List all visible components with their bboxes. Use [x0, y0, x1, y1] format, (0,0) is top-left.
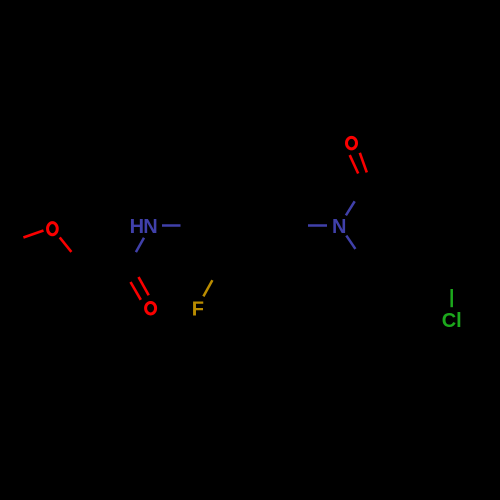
wire N-C1 carbon half: [181, 224, 211, 227]
wire C4-C5: [372, 257, 418, 272]
bond CH2b-Cl chlorine half (green): [450, 289, 453, 307]
svg-text:Cl: Cl: [442, 310, 462, 332]
wire CH2b-Cl carbon half: [450, 260, 453, 290]
wire CH2a-Camide: [90, 274, 130, 282]
bond CH3-O1 oxygen half (red): [23, 231, 43, 238]
bond N-C1 nitrogen half (blue): [162, 224, 181, 227]
bond C=O lactam main line (red): [360, 153, 367, 173]
bond N2-Cco nitrogen half (blue): [346, 201, 355, 215]
wire C4-N2 carbon half: [277, 224, 308, 227]
bond C2-F fluorine half (gold): [203, 280, 212, 296]
bond C=O amide main line (red): [131, 282, 141, 300]
bond C=O lactam offset line (red): [350, 155, 359, 173]
atom label O1 ether oxygen: [48, 223, 58, 235]
bond N2-C5 nitrogen half (blue): [346, 236, 355, 249]
wire N-Camide carbon half: [131, 252, 136, 282]
benzene ring edges: [211, 197, 277, 254]
wire C3-C4: [417, 200, 425, 257]
atom label O3 lactam oxygen: [347, 137, 357, 149]
bond N-Camide nitrogen half (blue): [136, 238, 144, 252]
svg-text:HN: HN: [130, 216, 158, 238]
wire O1-CH2a carbon half: [71, 252, 90, 275]
bond C=O amide offset line (red): [139, 277, 149, 295]
bond C4-N2 nitrogen half (blue): [308, 224, 327, 227]
wire methyl tail C-half: [0, 238, 23, 247]
wire C2-F carbon half: [212, 254, 227, 280]
wire N2-Cco carbon half: [355, 177, 370, 202]
wire C4-CH2b: [417, 257, 451, 260]
atom label O2 amide oxygen: [146, 302, 156, 314]
wire N2-C5 carbon half: [355, 249, 371, 272]
svg-text:N: N: [332, 216, 346, 238]
wire Cco-C3: [370, 177, 425, 200]
bond O1-CH2a oxygen half (red): [60, 237, 72, 252]
svg-text:F: F: [192, 299, 204, 321]
benzene inner double bonds: [218, 203, 257, 249]
